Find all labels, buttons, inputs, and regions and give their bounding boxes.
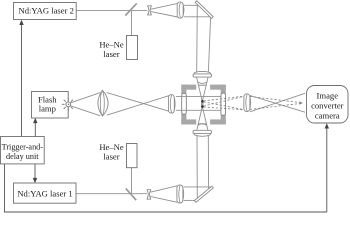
svg-text:camera: camera	[315, 111, 340, 121]
svg-text:Trigger-and-: Trigger-and-	[2, 143, 44, 152]
svg-text:Nd:YAG laser 1: Nd:YAG laser 1	[17, 189, 72, 199]
svg-text:lamp: lamp	[39, 103, 56, 113]
svg-text:He–Ne: He–Ne	[99, 40, 124, 50]
svg-text:Nd:YAG laser 2: Nd:YAG laser 2	[19, 5, 74, 15]
svg-text:delay unit: delay unit	[6, 152, 39, 161]
svg-text:laser: laser	[103, 49, 119, 59]
svg-text:converter: converter	[311, 101, 344, 111]
svg-text:laser: laser	[103, 151, 119, 161]
svg-text:Image: Image	[317, 90, 339, 100]
